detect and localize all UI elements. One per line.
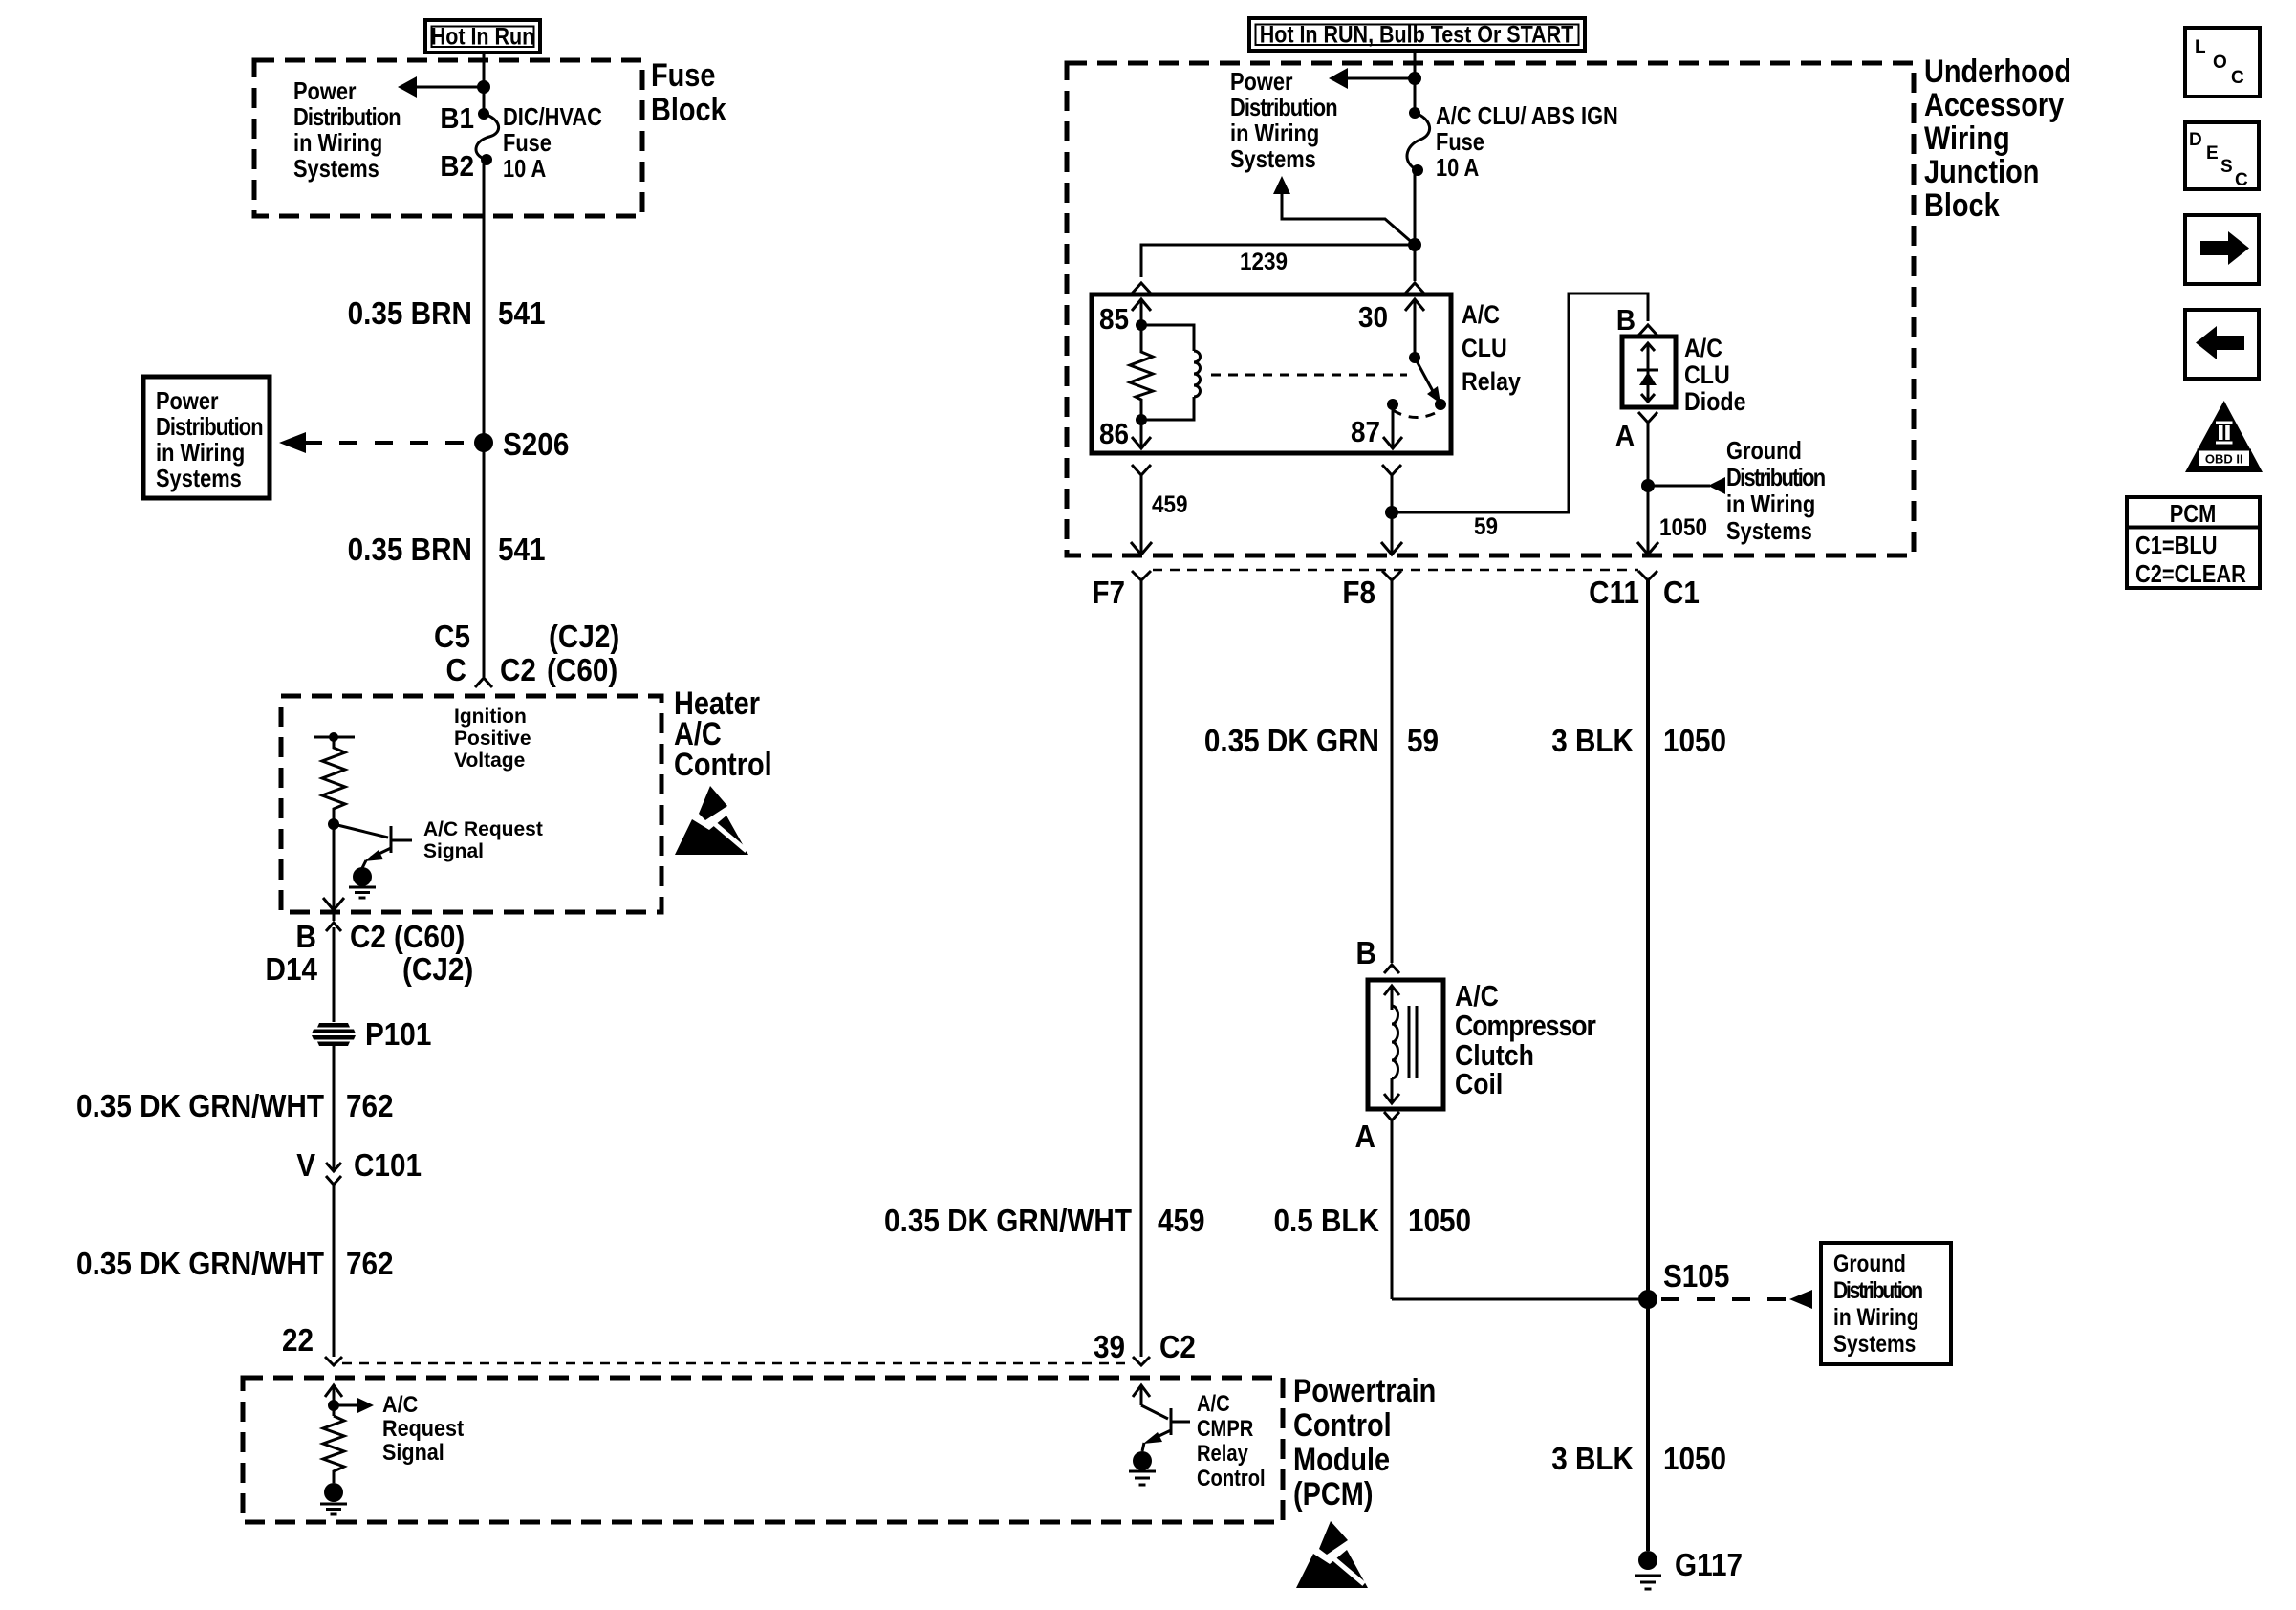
arrow to power distribution (junction) — [1329, 68, 1415, 89]
svg-text:C5: C5 — [434, 620, 470, 655]
ground ball PCM left — [320, 1483, 347, 1514]
svg-text:E: E — [2206, 143, 2219, 163]
label 0.5 BLK 1050 — [1273, 1204, 1471, 1239]
wire 541 upper segment — [483, 160, 486, 443]
svg-text:(C60): (C60) — [547, 653, 617, 688]
node hot feed junction — [1408, 72, 1421, 85]
svg-text:Distribution: Distribution — [293, 103, 401, 131]
ESD symbol PCM — [1296, 1521, 1368, 1588]
connector chevron pin30 — [1405, 283, 1424, 294]
svg-text:0.35 DK GRN/WHT: 0.35 DK GRN/WHT — [76, 1089, 324, 1124]
svg-text:762: 762 — [346, 1089, 394, 1124]
connector B clutch coil — [1356, 936, 1399, 973]
svg-text:541: 541 — [498, 296, 546, 332]
label 0.35 DK GRN/WHT 459 — [884, 1204, 1204, 1239]
svg-text:3 BLK: 3 BLK — [1551, 1442, 1634, 1477]
svg-text:Control: Control — [1293, 1406, 1392, 1444]
relay pin 86 — [1099, 414, 1151, 450]
fuse A/C CLU ABS IGN 10A — [1407, 107, 1430, 176]
transistor A/C request (heater) — [334, 824, 412, 868]
svg-text:Diode: Diode — [1684, 387, 1745, 416]
svg-text:C11: C11 — [1589, 576, 1639, 611]
arrow to power distribution — [398, 76, 484, 98]
relay switch contact node — [1435, 399, 1446, 410]
svg-text:B: B — [1356, 936, 1376, 971]
svg-text:59: 59 — [1474, 513, 1498, 540]
svg-text:22: 22 — [282, 1323, 314, 1359]
svg-text:DIC/HVAC: DIC/HVAC — [503, 103, 602, 131]
svg-text:Systems: Systems — [1726, 517, 1812, 545]
connector V C101 — [296, 1148, 422, 1193]
node at hot feed junction — [477, 80, 490, 94]
svg-text:Distribution: Distribution — [1726, 464, 1826, 491]
svg-text:Relay: Relay — [1462, 367, 1521, 396]
relay pin 85 — [1099, 299, 1151, 336]
svg-text:Power: Power — [1230, 68, 1293, 96]
note Power Distribution in Wiring Systems (fuse block) — [293, 77, 401, 183]
svg-text:Block: Block — [651, 91, 726, 128]
svg-text:S: S — [2220, 157, 2233, 177]
svg-text:0.35 BRN: 0.35 BRN — [348, 533, 472, 568]
connector C2 (C60) at heater control — [446, 653, 618, 688]
connector Y diode A — [1615, 412, 1657, 555]
svg-text:C1=BLU: C1=BLU — [2135, 532, 2218, 559]
svg-text:0.35 DK GRN/WHT: 0.35 DK GRN/WHT — [76, 1247, 324, 1282]
svg-text:A/C Request: A/C Request — [423, 818, 543, 840]
svg-text:CMPR: CMPR — [1197, 1415, 1253, 1441]
svg-text:in Wiring: in Wiring — [293, 129, 382, 157]
svg-text:C2=CLEAR: C2=CLEAR — [2135, 560, 2246, 588]
label Hot In Run — [425, 20, 540, 53]
pin C5 label — [434, 620, 619, 655]
label 0.35 DK GRN 59 — [1204, 724, 1439, 759]
wire hot feed from Hot In Run to B1 — [483, 53, 486, 114]
svg-text:B2: B2 — [440, 150, 474, 184]
label 3 BLK 1050 lower — [1551, 1442, 1726, 1477]
resistor in PCM — [323, 1416, 344, 1483]
label 0.35 BRN 541 lower — [348, 533, 546, 568]
pin 39 C2 labels — [1094, 1330, 1196, 1365]
svg-text:1050: 1050 — [1663, 724, 1726, 759]
wire D14 to P101 — [333, 927, 336, 1022]
svg-text:Control: Control — [1197, 1465, 1266, 1490]
svg-text:A/C: A/C — [1197, 1390, 1230, 1416]
svg-text:Junction: Junction — [1924, 153, 2039, 190]
svg-text:Fuse: Fuse — [651, 56, 715, 94]
svg-text:in Wiring: in Wiring — [1230, 120, 1319, 147]
svg-text:0.35 DK GRN/WHT: 0.35 DK GRN/WHT — [884, 1204, 1132, 1239]
wire fuse output down — [1414, 170, 1417, 281]
svg-text:Request: Request — [382, 1415, 465, 1441]
wire coil A to S105 — [1392, 1298, 1648, 1301]
box Power Distribution in Wiring Systems (left) — [143, 377, 270, 498]
svg-text:F8: F8 — [1342, 576, 1375, 611]
label Hot In RUN Bulb Test Or START — [1249, 18, 1585, 51]
svg-text:1050: 1050 — [1659, 514, 1707, 541]
relay coil resistor — [1130, 325, 1153, 420]
svg-text:Compressor: Compressor — [1455, 1010, 1596, 1042]
svg-text:541: 541 — [498, 533, 546, 568]
svg-text:39: 39 — [1094, 1330, 1125, 1365]
label 0.35 BRN 541 upper — [348, 296, 546, 332]
Powertrain Control Module (PCM) title — [1293, 1372, 1436, 1512]
icon LOC — [2185, 28, 2260, 97]
icon arrow right — [2185, 215, 2259, 284]
resistor in heater control — [322, 737, 345, 824]
svg-text:1050: 1050 — [1408, 1204, 1471, 1239]
dashed wire to ground distribution box — [1661, 1290, 1812, 1309]
svg-text:O: O — [2213, 53, 2227, 73]
wire 59 — [1392, 294, 1648, 540]
transistor A/C CMPR relay control — [1141, 1405, 1190, 1451]
svg-text:D14: D14 — [266, 952, 318, 988]
label 0.35 DK GRN/WHT 762 lower — [76, 1247, 393, 1282]
PCM dashed box — [243, 1378, 1283, 1522]
svg-text:Hot In RUN, Bulb Test Or START: Hot In RUN, Bulb Test Or START — [1260, 21, 1574, 48]
value DIC/HVAC Fuse 10 A — [503, 103, 602, 183]
svg-text:A/C CLU/ ABS IGN: A/C CLU/ ABS IGN — [1436, 102, 1618, 130]
Heater A/C Control dashed box — [281, 696, 661, 912]
svg-text:(C60): (C60) — [394, 920, 465, 955]
box Ground Distribution in Wiring Systems (right) — [1821, 1243, 1951, 1364]
arrow to ground distribution (junction) — [1648, 477, 1725, 494]
svg-text:10 A: 10 A — [1436, 154, 1479, 182]
svg-text:Power: Power — [156, 387, 219, 415]
Fuse Block title — [651, 56, 726, 128]
ground ball PCM right — [1129, 1451, 1156, 1485]
note A/C CMPR Relay Control — [1197, 1390, 1266, 1490]
svg-text:Signal: Signal — [382, 1439, 444, 1465]
Heater A/C Control title — [674, 685, 772, 783]
svg-text:C1: C1 — [1663, 576, 1700, 611]
svg-text:A/C: A/C — [1462, 300, 1500, 329]
note A/C Request Signal (PCM) — [382, 1391, 465, 1465]
relay swing arc dashed — [1393, 410, 1440, 418]
node heater transistor base — [328, 818, 339, 830]
svg-text:C2: C2 — [350, 920, 386, 955]
svg-text:A: A — [1615, 420, 1635, 453]
svg-text:P101: P101 — [365, 1017, 431, 1053]
svg-text:CLU: CLU — [1462, 334, 1507, 362]
wire 3 BLK 1050 down — [1646, 580, 1650, 1551]
svg-text:1050: 1050 — [1663, 1442, 1726, 1477]
svg-text:30: 30 — [1358, 301, 1388, 335]
legend PCM connectors — [2127, 497, 2260, 588]
connector B C2 (C60) (CJ2) below heater — [266, 912, 474, 987]
svg-text:Module: Module — [1293, 1441, 1390, 1478]
svg-text:in Wiring: in Wiring — [1833, 1303, 1919, 1330]
svg-text:Relay: Relay — [1197, 1440, 1248, 1466]
wire 459 down to PCM — [1140, 580, 1143, 1357]
relay internal dashed link — [1211, 374, 1407, 377]
svg-text:Systems: Systems — [1833, 1330, 1916, 1357]
svg-text:85: 85 — [1099, 303, 1129, 337]
dashed link pin22 to pin39 — [342, 1362, 1125, 1365]
svg-text:C: C — [446, 653, 466, 688]
svg-text:A/C: A/C — [1455, 980, 1499, 1012]
svg-text:0.5 BLK: 0.5 BLK — [1273, 1204, 1379, 1239]
wire 762 upper — [333, 1046, 336, 1152]
svg-text:A: A — [1355, 1120, 1375, 1155]
dashed wire to power distribution box — [279, 432, 476, 453]
connector row F7 F8 C11 C1 — [1092, 570, 1700, 610]
svg-text:86: 86 — [1099, 418, 1129, 451]
note A/C CLU Diode — [1684, 334, 1745, 416]
wire pin22 entry arrow — [325, 1385, 342, 1416]
svg-text:C: C — [2235, 170, 2248, 190]
label 0.35 DK GRN/WHT 762 upper — [76, 1089, 393, 1124]
svg-text:C101: C101 — [354, 1148, 422, 1184]
svg-text:10 A: 10 A — [503, 155, 546, 183]
svg-text:D: D — [2189, 130, 2202, 150]
arrows at junction block bottom edge — [1131, 486, 1658, 555]
wire 59 down to coil — [1391, 580, 1394, 963]
node wire 1239 junction — [1408, 238, 1421, 251]
fuse F_DIC/HVAC 10A symbol — [476, 114, 499, 160]
svg-text:Systems: Systems — [1230, 145, 1316, 173]
pin B1 — [440, 102, 489, 136]
svg-text:Fuse: Fuse — [503, 129, 552, 157]
Underhood junction block dashed box — [1067, 63, 1914, 555]
relay switch arm — [1415, 358, 1440, 403]
note A/C Compressor Clutch Coil — [1455, 980, 1596, 1100]
svg-text:Signal: Signal — [423, 840, 484, 862]
svg-text:Coil: Coil — [1455, 1068, 1503, 1100]
svg-text:G117: G117 — [1675, 1548, 1743, 1583]
svg-text:L: L — [2195, 37, 2206, 57]
Fuse Block dashed box — [254, 60, 642, 216]
svg-text:S206: S206 — [503, 427, 569, 463]
svg-text:A/C: A/C — [1684, 334, 1722, 362]
svg-text:Powertrain: Powertrain — [1293, 1372, 1436, 1409]
relay box A/C CLU Relay — [1092, 294, 1521, 453]
svg-text:A/C: A/C — [382, 1391, 418, 1417]
svg-text:V: V — [296, 1148, 315, 1184]
connector A clutch coil — [1355, 1112, 1399, 1299]
svg-text:Systems: Systems — [156, 465, 242, 492]
svg-text:OBD II: OBD II — [2205, 452, 2243, 467]
relay coil winding — [1141, 325, 1201, 420]
label 1050 (junction block) — [1659, 514, 1707, 541]
svg-text:459: 459 — [1158, 1204, 1205, 1239]
node S105 splice — [1638, 1259, 1729, 1309]
ESD symbol heater — [675, 786, 748, 855]
svg-text:(CJ2): (CJ2) — [402, 952, 473, 988]
wire pin39 entry arrow — [1133, 1385, 1150, 1405]
svg-text:3 BLK: 3 BLK — [1551, 724, 1634, 759]
svg-text:in Wiring: in Wiring — [156, 439, 245, 467]
svg-text:S105: S105 — [1663, 1259, 1729, 1295]
svg-text:(PCM): (PCM) — [1293, 1475, 1373, 1512]
diode box A/C CLU Diode — [1622, 337, 1676, 407]
pin 22 label — [282, 1323, 314, 1359]
connector Y below relay pin 86 — [1132, 465, 1151, 555]
svg-text:(CJ2): (CJ2) — [549, 620, 619, 655]
relay pin 87 — [1351, 399, 1402, 448]
label 459 (junction block) — [1152, 491, 1188, 518]
pin B2 — [440, 150, 492, 184]
wire 1239 — [1141, 245, 1415, 277]
svg-text:Accessory: Accessory — [1924, 86, 2065, 123]
svg-text:1239: 1239 — [1240, 249, 1288, 275]
svg-text:Systems: Systems — [293, 155, 379, 183]
connector chevron diode B — [1616, 304, 1657, 337]
svg-text:Voltage: Voltage — [454, 750, 525, 772]
ground ball heater — [349, 867, 376, 898]
svg-text:Positive: Positive — [454, 728, 531, 750]
svg-text:Power: Power — [293, 77, 357, 105]
grommet P101 — [312, 1017, 431, 1053]
wire 762 lower — [333, 1193, 336, 1357]
icon OBD II triangle — [2185, 401, 2263, 472]
note Power Distribution in Wiring Systems (junction block) — [1230, 68, 1338, 173]
svg-text:Distribution: Distribution — [156, 413, 264, 441]
wire hot feed RUN — [1414, 51, 1417, 113]
icon arrow left — [2185, 310, 2259, 379]
svg-text:Hot In Run: Hot In Run — [431, 23, 535, 50]
svg-text:0.35 BRN: 0.35 BRN — [348, 296, 472, 332]
connector chevron pin85 — [1132, 283, 1151, 294]
svg-text:Underhood: Underhood — [1924, 53, 2071, 90]
label 3 BLK 1050 upper — [1551, 724, 1726, 759]
connector Y below relay pin 87 — [1382, 465, 1401, 555]
svg-text:59: 59 — [1407, 724, 1439, 759]
note Ignition Positive Voltage — [454, 706, 531, 772]
svg-text:Ignition: Ignition — [454, 706, 527, 728]
svg-text:F7: F7 — [1092, 576, 1125, 611]
note A/C Request Signal (heater) — [423, 818, 543, 862]
svg-text:459: 459 — [1152, 491, 1188, 518]
ignition feed rail — [314, 732, 355, 742]
svg-text:Distribution: Distribution — [1230, 94, 1338, 121]
icon DESC — [2185, 122, 2259, 190]
svg-text:Distribution: Distribution — [1833, 1276, 1923, 1303]
svg-text:CLU: CLU — [1684, 360, 1730, 389]
relay pin 30 — [1358, 299, 1424, 363]
svg-text:C2: C2 — [500, 653, 536, 688]
svg-text:Block: Block — [1924, 186, 2000, 224]
wire 541 lower segment — [483, 443, 486, 677]
note Ground Distribution in Wiring Systems (junction) — [1726, 437, 1826, 545]
svg-text:C: C — [2231, 68, 2244, 88]
svg-text:Control: Control — [674, 746, 772, 783]
ground G117 — [1635, 1548, 1743, 1589]
node ground distribution branch — [1641, 479, 1655, 492]
arrow A/C request signal — [334, 1398, 374, 1413]
svg-text:Ground: Ground — [1833, 1250, 1906, 1276]
svg-text:PCM: PCM — [2170, 500, 2217, 528]
svg-text:762: 762 — [346, 1247, 394, 1282]
svg-text:Fuse: Fuse — [1436, 128, 1484, 156]
node A/C request signal — [328, 1400, 339, 1411]
value A/C CLU/ ABS IGN Fuse 10 A — [1436, 102, 1618, 182]
A/C Compressor Clutch Coil box — [1368, 980, 1443, 1109]
wire heater output to box edge — [323, 824, 344, 910]
Underhood Accessory Wiring Junction Block title — [1924, 53, 2071, 224]
svg-text:C2: C2 — [1159, 1330, 1196, 1365]
connector pin39 into PCM — [1133, 1357, 1150, 1365]
node wire 59 branch — [1385, 506, 1398, 519]
svg-text:87: 87 — [1351, 416, 1380, 449]
svg-text:in Wiring: in Wiring — [1726, 490, 1815, 518]
connector pin22 into PCM — [325, 1357, 342, 1365]
svg-text:B: B — [296, 920, 316, 955]
arrow up to power distribution text — [1273, 176, 1415, 245]
svg-text:B: B — [1616, 304, 1635, 337]
svg-text:Wiring: Wiring — [1924, 120, 2010, 157]
svg-text:Ground: Ground — [1726, 437, 1802, 465]
svg-text:0.35 DK GRN: 0.35 DK GRN — [1204, 724, 1379, 759]
node S206 splice — [474, 427, 569, 463]
svg-text:B1: B1 — [440, 102, 474, 136]
